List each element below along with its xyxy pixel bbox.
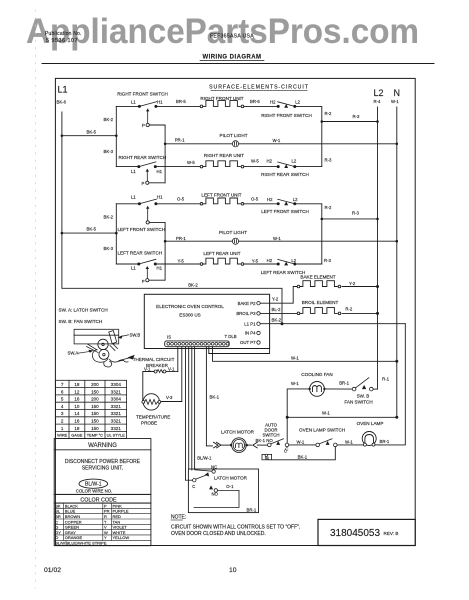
- svg-text:BK-6: BK-6: [57, 100, 67, 105]
- EOC pin IN P4: [245, 331, 260, 336]
- svg-text:PURPLE: PURPLE: [113, 509, 129, 514]
- svg-text:3304: 3304: [111, 382, 122, 387]
- svg-text:UL STYLE: UL STYLE: [107, 433, 126, 438]
- svg-text:BL: BL: [55, 509, 61, 514]
- label BL/W-1: [197, 455, 212, 460]
- svg-text:BR-5: BR-5: [176, 99, 186, 104]
- temperature probe: [136, 394, 170, 426]
- svg-text:6: 6: [61, 389, 64, 394]
- svg-text:NC: NC: [211, 464, 217, 469]
- model number text: [210, 34, 254, 40]
- svg-text:BL/W-1: BL/W-1: [85, 482, 102, 488]
- svg-text:P: P: [142, 279, 145, 284]
- header rule: [42, 63, 434, 65]
- node L2 label: [374, 88, 384, 104]
- svg-text:H1: H1: [157, 99, 163, 104]
- svg-text:LEFT REAR SWITCH: LEFT REAR SWITCH: [261, 270, 306, 275]
- svg-text:5 9536 107: 5 9536 107: [46, 38, 78, 44]
- thermal circuit breaker: [133, 357, 175, 373]
- svg-text:3321: 3321: [111, 419, 122, 424]
- EOC pin OUT P7: [240, 340, 260, 345]
- note text: [171, 515, 300, 537]
- label BK-1: [210, 395, 220, 400]
- color code table: [54, 494, 151, 545]
- wire lamp BR-1: [375, 439, 390, 445]
- svg-text:OUT P7: OUT P7: [240, 340, 256, 345]
- svg-text:LATCH MOTOR: LATCH MOTOR: [214, 475, 248, 480]
- bake element: [297, 275, 341, 288]
- svg-text:W-1: W-1: [297, 439, 305, 444]
- svg-text:SW.A: SW.A: [68, 351, 79, 356]
- svg-text:OVEN LAMP: OVEN LAMP: [357, 421, 384, 426]
- svg-text:OVEN LAMP SWITCH: OVEN LAMP SWITCH: [299, 428, 345, 433]
- surface block 1 (right front/rear): [61, 101, 399, 185]
- svg-text:H2: H2: [270, 99, 276, 104]
- wire OUT P7 loop: [209, 347, 270, 354]
- svg-text:LATCH MOTOR: LATCH MOTOR: [221, 429, 255, 434]
- svg-text:ORANGE: ORANGE: [65, 535, 83, 540]
- svg-text:T DLB: T DLB: [225, 334, 237, 339]
- svg-text:W-1: W-1: [391, 99, 399, 104]
- svg-text:14: 14: [74, 411, 80, 416]
- svg-text:RIGHT FRONT UNIT: RIGHT FRONT UNIT: [200, 96, 243, 101]
- svg-text:L1: L1: [58, 85, 68, 95]
- latch assembly drawing: [74, 329, 134, 367]
- svg-text:BK-5: BK-5: [87, 129, 97, 134]
- svg-text:18: 18: [74, 382, 80, 387]
- wire W-1 to N: [213, 347, 399, 363]
- legend SW A latch switch: [59, 307, 108, 312]
- oven lamp switch: [299, 428, 345, 447]
- svg-text:SW. B: FAN SWITCH: SW. B: FAN SWITCH: [59, 319, 103, 324]
- svg-text:L1: L1: [131, 169, 136, 174]
- svg-text:01/02: 01/02: [44, 567, 61, 574]
- svg-text:BROWN: BROWN: [65, 514, 80, 519]
- svg-text:PR-1: PR-1: [175, 138, 185, 143]
- svg-text:L1: L1: [131, 99, 136, 104]
- svg-text:12: 12: [74, 389, 80, 394]
- svg-text:LEFT REAR SWITCH: LEFT REAR SWITCH: [118, 251, 163, 256]
- svg-text:L1: L1: [131, 194, 136, 199]
- svg-text:W: W: [104, 530, 108, 535]
- svg-text:L2: L2: [293, 197, 298, 202]
- wire BK-1 lamp switch loop: [272, 447, 336, 460]
- svg-text:R-2: R-2: [325, 205, 333, 210]
- svg-text:SWITCH: SWITCH: [263, 432, 280, 437]
- svg-text:WARNING: WARNING: [88, 443, 117, 449]
- svg-text:V-1: V-1: [168, 367, 175, 372]
- svg-text:O: O: [55, 535, 58, 540]
- svg-text:O-1: O-1: [226, 484, 234, 489]
- svg-text:P: P: [142, 181, 145, 186]
- svg-text:BL/W-1: BL/W-1: [197, 455, 212, 460]
- color wire no oval: [76, 479, 113, 494]
- door interlock box: [262, 448, 287, 460]
- latch motor label lower: [214, 475, 248, 480]
- svg-text:W-1: W-1: [291, 381, 299, 386]
- svg-text:C: C: [284, 448, 287, 453]
- EOC external wire labels: [272, 297, 282, 323]
- svg-text:150: 150: [91, 411, 99, 416]
- svg-text:3321: 3321: [111, 389, 122, 394]
- svg-text:Y: Y: [104, 535, 107, 540]
- svg-text:H1: H1: [157, 194, 163, 199]
- svg-text:W-5: W-5: [251, 159, 259, 164]
- svg-text:IS: IS: [167, 335, 171, 340]
- svg-text:3: 3: [61, 411, 64, 416]
- latch drawing pointer SW.B: [118, 332, 141, 338]
- svg-text:RIGHT FRONT SWITCH: RIGHT FRONT SWITCH: [261, 113, 312, 118]
- EOC pin BAKE P2: [238, 301, 261, 306]
- svg-text:W-1: W-1: [273, 236, 281, 241]
- wire gauge table text: [57, 382, 125, 438]
- svg-text:5: 5: [61, 397, 64, 402]
- svg-text:BLUE/WHITE STRIPE: BLUE/WHITE STRIPE: [67, 541, 107, 546]
- svg-text:WIRING DIAGRAM: WIRING DIAGRAM: [203, 55, 262, 61]
- svg-text:V-3: V-3: [166, 395, 173, 400]
- svg-text:BK-5: BK-5: [87, 226, 97, 231]
- svg-text:CIRCUIT SHOWN WITH ALL CONTROL: CIRCUIT SHOWN WITH ALL CONTROLS SET TO “…: [171, 525, 300, 531]
- svg-text:V-1: V-1: [144, 367, 151, 372]
- svg-text:L2: L2: [374, 88, 384, 98]
- schematic border frame: [55, 78, 415, 545]
- svg-text:R-2: R-2: [325, 111, 333, 116]
- wire Y-2 bake feed: [260, 287, 297, 304]
- svg-text:BK-1: BK-1: [210, 395, 220, 400]
- svg-text:18: 18: [74, 426, 80, 431]
- wire R-2 broil to L2: [342, 307, 379, 315]
- svg-text:COLOR WIRE NO.: COLOR WIRE NO.: [76, 489, 113, 494]
- labels surface block 1: [87, 91, 361, 185]
- svg-text:ES300 US: ES300 US: [179, 312, 200, 317]
- svg-text:PILOT LIGHT: PILOT LIGHT: [219, 230, 247, 235]
- svg-text:Y-5: Y-5: [178, 258, 185, 263]
- svg-text:150: 150: [91, 404, 99, 409]
- svg-text:GRAY: GRAY: [65, 530, 76, 535]
- strip drop wires: [178, 347, 207, 481]
- wire probe V-3: [161, 395, 182, 401]
- svg-text:FAN SWITCH: FAN SWITCH: [344, 399, 372, 404]
- svg-text:BK-2: BK-2: [188, 282, 198, 287]
- svg-text:L2: L2: [291, 258, 296, 263]
- svg-text:BAKE P2: BAKE P2: [238, 301, 257, 306]
- node N label: [391, 88, 400, 104]
- svg-text:H2: H2: [267, 159, 273, 164]
- fan switch SW B: [344, 376, 389, 404]
- svg-text:BROIL P3: BROIL P3: [236, 311, 256, 316]
- warning box: [54, 439, 151, 495]
- wire gauge table: [55, 380, 126, 438]
- svg-text:RED: RED: [113, 514, 122, 519]
- oven lamp: [357, 421, 384, 446]
- svg-text:BL/W: BL/W: [55, 541, 65, 546]
- svg-text:THERMAL CIRCUIT: THERMAL CIRCUIT: [133, 357, 175, 362]
- svg-text:16: 16: [74, 419, 80, 424]
- latch motor: [206, 429, 267, 452]
- svg-text:BL-2: BL-2: [272, 307, 282, 312]
- svg-text:PILOT LIGHT: PILOT LIGHT: [220, 133, 248, 138]
- footer page number: [229, 567, 237, 574]
- svg-text:TEMPERATURE: TEMPERATURE: [136, 415, 170, 420]
- svg-text:2: 2: [61, 419, 64, 424]
- svg-text:BK-1: BK-1: [298, 455, 308, 460]
- watermark AppliancePartsPros.com: [26, 12, 419, 51]
- svg-text:200: 200: [91, 397, 99, 402]
- svg-text:3321: 3321: [111, 426, 122, 431]
- svg-text:SW. B: SW. B: [357, 393, 370, 398]
- svg-text:GY: GY: [55, 530, 61, 535]
- svg-text:BAKE ELEMENT: BAKE ELEMENT: [300, 275, 335, 280]
- svg-text:O-5: O-5: [177, 196, 185, 201]
- svg-text:L2: L2: [292, 159, 297, 164]
- wire fan left: [287, 389, 309, 445]
- svg-text:IN P4: IN P4: [245, 331, 256, 336]
- EOC connector strip: [165, 334, 237, 347]
- svg-text:TAN: TAN: [113, 519, 121, 524]
- svg-text:TEMP °C: TEMP °C: [87, 433, 103, 438]
- svg-text:BLUE: BLUE: [65, 509, 76, 514]
- svg-text:R-3: R-3: [325, 158, 333, 163]
- wire L2 bus: [377, 107, 379, 389]
- svg-text:P: P: [104, 503, 107, 508]
- electronic oven control box: [144, 294, 269, 348]
- wire BK-2 L1 feed: [260, 322, 405, 325]
- wire C to lamp switch: [289, 439, 316, 445]
- wire breaker to probe: [143, 372, 178, 402]
- svg-text:Y-2: Y-2: [272, 297, 279, 302]
- svg-text:PR-1: PR-1: [176, 236, 186, 241]
- svg-text:R-3: R-3: [324, 258, 332, 263]
- svg-text:WHITE: WHITE: [113, 530, 126, 535]
- svg-text:H2: H2: [267, 197, 273, 202]
- svg-text:GREEN: GREEN: [65, 525, 79, 530]
- svg-text:NE: NE: [265, 457, 269, 461]
- svg-text:N: N: [394, 88, 401, 98]
- svg-text:BK-2: BK-2: [104, 215, 114, 220]
- svg-text:150: 150: [91, 389, 99, 394]
- svg-text:10: 10: [74, 404, 80, 409]
- EOC pin BROIL P3: [236, 311, 260, 316]
- cooling fan: [291, 372, 333, 396]
- svg-text:WIRE: WIRE: [57, 433, 68, 438]
- wire Y-2 bake to L2: [342, 281, 379, 288]
- svg-text:LEFT FRONT SWITCH: LEFT FRONT SWITCH: [261, 209, 309, 214]
- svg-text:VIOLET: VIOLET: [113, 525, 128, 530]
- svg-text:W-1: W-1: [291, 355, 299, 360]
- svg-text:BROIL ELEMENT: BROIL ELEMENT: [302, 300, 339, 305]
- part number box: [318, 519, 415, 545]
- wire L1 bus: [62, 112, 282, 324]
- svg-text:AppliancePartsPros.com: AppliancePartsPros.com: [26, 12, 419, 51]
- svg-text:V: V: [104, 525, 107, 530]
- svg-text:LEFT FRONT UNIT: LEFT FRONT UNIT: [201, 193, 241, 198]
- svg-text:Y-5: Y-5: [252, 258, 259, 263]
- latch switch box: [188, 469, 258, 513]
- svg-text:T: T: [104, 519, 107, 524]
- svg-text:R-3: R-3: [352, 211, 360, 216]
- svg-text:1: 1: [61, 426, 64, 431]
- svg-text:COOLING FAN: COOLING FAN: [301, 372, 332, 377]
- svg-text:Publication No.: Publication No.: [45, 31, 82, 37]
- scan noise column: [35, 10, 37, 588]
- wire lamp switch to lamp: [337, 439, 363, 445]
- svg-text:ELECTRONIC OVEN CONTROL: ELECTRONIC OVEN CONTROL: [156, 304, 224, 309]
- svg-text:G: G: [55, 525, 58, 530]
- svg-text:C: C: [55, 519, 58, 524]
- svg-text:R-1: R-1: [382, 376, 390, 381]
- svg-text:H1: H1: [157, 169, 163, 174]
- svg-text:SW.B: SW.B: [130, 332, 141, 337]
- svg-text:H1: H1: [157, 265, 163, 270]
- svg-text:PR: PR: [104, 509, 110, 514]
- svg-text:BK-2: BK-2: [272, 317, 282, 322]
- svg-text:BR-5: BR-5: [250, 99, 260, 104]
- title WIRING DIAGRAM: [200, 55, 264, 61]
- svg-text:7: 7: [61, 382, 64, 387]
- svg-text:BK-2: BK-2: [104, 117, 114, 122]
- wire BK-1 right drop: [379, 324, 405, 445]
- svg-text:BR: BR: [55, 514, 61, 519]
- svg-text:318045053: 318045053: [330, 528, 380, 539]
- svg-text:LEFT REAR UNIT: LEFT REAR UNIT: [203, 251, 240, 256]
- wire N bus: [396, 107, 398, 417]
- svg-text:REV: B: REV: B: [384, 531, 399, 536]
- svg-text:BK: BK: [55, 503, 61, 508]
- svg-text:W-1: W-1: [273, 138, 281, 143]
- svg-text:RIGHT FRONT SWITCH: RIGHT FRONT SWITCH: [117, 91, 168, 96]
- svg-text:L2: L2: [295, 99, 300, 104]
- svg-text:C: C: [192, 484, 195, 489]
- svg-text:R-2: R-2: [345, 307, 353, 312]
- svg-text:BK-1 NO: BK-1 NO: [256, 438, 274, 443]
- svg-text:COPPER: COPPER: [65, 519, 82, 524]
- svg-text:W-1: W-1: [322, 411, 330, 416]
- svg-text:L1: L1: [131, 265, 136, 270]
- svg-text:SERVICING UNIT.: SERVICING UNIT.: [82, 466, 123, 472]
- svg-text:150: 150: [91, 419, 99, 424]
- svg-text:BK-3: BK-3: [104, 246, 114, 251]
- wire BL-2 broil feed: [260, 312, 297, 314]
- svg-text:200: 200: [91, 382, 99, 387]
- svg-text:4: 4: [61, 404, 64, 409]
- EOC pin L1 P1: [244, 321, 260, 326]
- svg-text:LEFT FRONT SWITCH: LEFT FRONT SWITCH: [118, 227, 166, 232]
- svg-text:R-4: R-4: [374, 99, 382, 104]
- svg-text:BR-1: BR-1: [380, 439, 390, 444]
- svg-text:SW. A: LATCH SWITCH: SW. A: LATCH SWITCH: [59, 307, 108, 312]
- svg-text:3321: 3321: [111, 411, 122, 416]
- svg-text:PINK: PINK: [113, 503, 123, 508]
- svg-text:FEF365ASA USA: FEF365ASA USA: [210, 34, 254, 40]
- wire W-1 lamp feed: [286, 411, 399, 419]
- svg-text:NOTE:: NOTE:: [171, 515, 186, 521]
- svg-text:3304: 3304: [111, 397, 122, 402]
- svg-text:BR-1: BR-1: [247, 507, 257, 512]
- auto door switch: [256, 423, 289, 452]
- node L1 label: [57, 85, 68, 105]
- svg-text:BK-3: BK-3: [104, 149, 114, 154]
- broil element: [297, 300, 341, 315]
- svg-text:DISCONNECT POWER BEFORE: DISCONNECT POWER BEFORE: [65, 459, 141, 465]
- svg-text:SURFACE-ELEMENTS-CIRCUIT: SURFACE-ELEMENTS-CIRCUIT: [209, 85, 309, 91]
- latch drawing pointer SW.A: [68, 350, 94, 356]
- svg-text:BR-1: BR-1: [339, 380, 349, 385]
- svg-text:GAGE: GAGE: [71, 433, 83, 438]
- svg-text:16: 16: [74, 397, 80, 402]
- svg-text:YELLOW: YELLOW: [113, 535, 130, 540]
- svg-text:O-5: O-5: [251, 196, 259, 201]
- svg-text:BLACK: BLACK: [65, 503, 78, 508]
- svg-text:W-5: W-5: [187, 160, 195, 165]
- svg-text:P: P: [142, 123, 145, 128]
- svg-text:150: 150: [91, 426, 99, 431]
- svg-text:Y-2: Y-2: [349, 281, 356, 286]
- legend SW B fan switch: [59, 319, 103, 324]
- svg-text:10: 10: [229, 567, 237, 574]
- surface block 2 (left front/rear): [61, 198, 399, 282]
- electronic oven control labels: [156, 304, 224, 317]
- svg-text:RIGHT REAR UNIT: RIGHT REAR UNIT: [204, 153, 244, 158]
- svg-text:RIGHT REAR SWITCH: RIGHT REAR SWITCH: [119, 155, 167, 160]
- labels surface block 2: [87, 193, 360, 288]
- title SURFACE-ELEMENTS-CIRCUIT: [209, 85, 309, 91]
- footer date: [44, 567, 61, 574]
- publication number text: [45, 31, 82, 44]
- svg-text:W-1: W-1: [345, 439, 353, 444]
- svg-text:H2: H2: [267, 258, 273, 263]
- svg-text:RIGHT REAR SWITCH: RIGHT REAR SWITCH: [261, 172, 309, 177]
- svg-text:OVEN DOOR CLOSED AND UNLOCKED.: OVEN DOOR CLOSED AND UNLOCKED.: [171, 531, 266, 537]
- svg-text:L1 P1: L1 P1: [244, 321, 256, 326]
- svg-text:PROBE: PROBE: [141, 421, 157, 426]
- latch switch SW A: [186, 464, 257, 512]
- svg-text:R: R: [104, 514, 107, 519]
- svg-text:R-3: R-3: [353, 114, 361, 119]
- svg-text:NO: NO: [212, 492, 219, 497]
- wire fan right BR-1: [324, 380, 352, 389]
- svg-text:3321: 3321: [111, 404, 122, 409]
